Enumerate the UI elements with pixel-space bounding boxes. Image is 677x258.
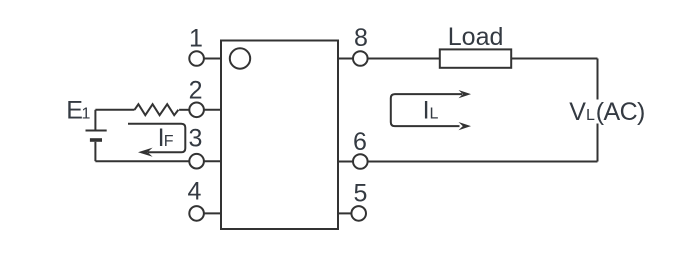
svg-text:8: 8 (354, 24, 368, 52)
wire pin1 lead (204, 58, 221, 60)
svg-text:2: 2 (189, 76, 203, 104)
svg-text:VL: VL (569, 98, 595, 126)
wire pin3 lead (204, 160, 221, 162)
wire load to right rail (511, 58, 597, 60)
pin 3 terminal (189, 154, 204, 169)
pin 8 terminal (353, 51, 368, 66)
op-amp U1 (SSR IC body) (221, 41, 338, 230)
IF arrowhead (138, 148, 153, 157)
svg-text:IF: IF (158, 124, 174, 152)
svg-text:(AC): (AC) (596, 98, 645, 126)
pin-1 indicator dot (230, 48, 250, 68)
IF current loop (128, 124, 185, 153)
svg-text:5: 5 (354, 180, 368, 208)
IL bottom arrowhead (459, 122, 472, 130)
svg-text:3: 3 (189, 125, 203, 153)
svg-text:1: 1 (189, 24, 203, 52)
wire pin6 to right rail (368, 161, 598, 163)
wire pin6 lead (338, 161, 353, 163)
battery E1 long plate (86, 130, 107, 132)
load resistor box (440, 49, 511, 67)
wire pin2 lead (204, 109, 221, 111)
svg-text:IL: IL (423, 97, 439, 125)
svg-text:4: 4 (187, 177, 201, 205)
battery E1 bottom lead (94, 142, 96, 161)
battery E1 short plate (90, 138, 102, 142)
wire battery bottom to pin3 (95, 160, 189, 162)
wire battery top to resistor (95, 109, 134, 111)
svg-text:E1: E1 (66, 97, 90, 125)
IL top arrowhead (459, 90, 472, 98)
battery E1 top lead (94, 110, 96, 130)
pin 5 terminal (351, 206, 366, 221)
white mask behind VL (AC) (593, 100, 648, 124)
svg-text:Load: Load (448, 23, 504, 51)
wire pin8 to load (368, 58, 440, 60)
wire pin4 lead (204, 212, 221, 214)
resistor R1 zigzag (135, 104, 179, 115)
wire resistor to pin2 (179, 109, 189, 111)
pin 4 terminal (189, 206, 204, 221)
wire pin5 lead (338, 212, 351, 214)
pin 2 terminal (189, 103, 204, 118)
pin 6 terminal (353, 154, 368, 169)
IL current loop (391, 94, 462, 126)
pin 1 terminal (189, 51, 204, 66)
wire right rail vertical (597, 59, 599, 162)
svg-text:6: 6 (353, 128, 367, 156)
wire pin8 lead (338, 58, 353, 60)
